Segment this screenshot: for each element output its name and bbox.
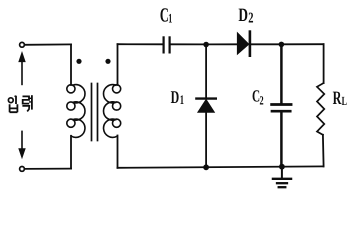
svg-text:L: L bbox=[342, 94, 347, 108]
svg-text:D: D bbox=[238, 5, 248, 26]
입 : i vertical bbox=[15, 96, 17, 104]
wire bbox=[322, 135, 325, 167]
wire bbox=[70, 44, 72, 85]
node junction top-D1 bbox=[203, 42, 209, 48]
label C1 bbox=[160, 5, 172, 27]
wire bbox=[25, 43, 71, 45]
wire bbox=[205, 112, 207, 167]
wire bbox=[323, 44, 325, 83]
wire bbox=[280, 113, 283, 167]
label input (Hangul 입력) drawn as strokes bbox=[8, 95, 32, 112]
transformer core bbox=[92, 84, 98, 141]
label RL bbox=[333, 88, 347, 109]
transformer polarity dot left bbox=[76, 59, 81, 64]
node junction ground bbox=[279, 164, 285, 170]
transformer T1 primary winding bbox=[67, 85, 85, 138]
wire bbox=[206, 43, 237, 45]
node junction bottom-D1 bbox=[203, 164, 209, 170]
capacitor C2 bbox=[272, 105, 292, 112]
력 : yeo vertical bbox=[31, 95, 33, 109]
diode D2 bbox=[237, 32, 250, 56]
wire bbox=[205, 47, 207, 98]
wire bbox=[70, 136, 72, 169]
transformer polarity dot right bbox=[105, 59, 110, 64]
label D1 bbox=[171, 87, 184, 107]
input arrow down bbox=[19, 131, 26, 158]
wire bbox=[25, 168, 71, 170]
label D2 bbox=[238, 5, 253, 27]
input terminal bottom bbox=[20, 167, 25, 172]
node junction top-C2 bbox=[279, 42, 285, 48]
wire bbox=[280, 47, 283, 103]
diode D1 bbox=[196, 99, 215, 113]
wire bbox=[118, 43, 164, 45]
wire bbox=[250, 43, 281, 45]
wire bottom right bbox=[118, 166, 324, 167]
력 : yeo ticks bbox=[29, 98, 32, 102]
wire bbox=[171, 43, 206, 45]
wire bbox=[117, 136, 119, 168]
ground bbox=[273, 167, 291, 188]
svg-text:C: C bbox=[160, 5, 169, 27]
입 : ieung circle bbox=[8, 98, 13, 103]
svg-text:D: D bbox=[171, 87, 180, 107]
입 : bieup bbox=[10, 104, 18, 112]
resistor RL bbox=[317, 83, 324, 135]
input arrow up bbox=[19, 52, 26, 84]
wire bbox=[281, 43, 323, 45]
wire bbox=[117, 44, 119, 85]
svg-text:1: 1 bbox=[180, 92, 184, 107]
transformer T1 secondary winding bbox=[104, 85, 121, 138]
svg-text:2: 2 bbox=[260, 93, 264, 107]
svg-text:1: 1 bbox=[168, 10, 172, 25]
svg-text:R: R bbox=[333, 88, 342, 109]
capacitor C1 bbox=[164, 37, 170, 52]
력 : rieul bbox=[23, 96, 30, 103]
력 : giyeok bbox=[22, 106, 29, 112]
input terminal top bbox=[20, 42, 25, 47]
svg-text:2: 2 bbox=[248, 11, 253, 27]
label C2 bbox=[252, 86, 264, 107]
